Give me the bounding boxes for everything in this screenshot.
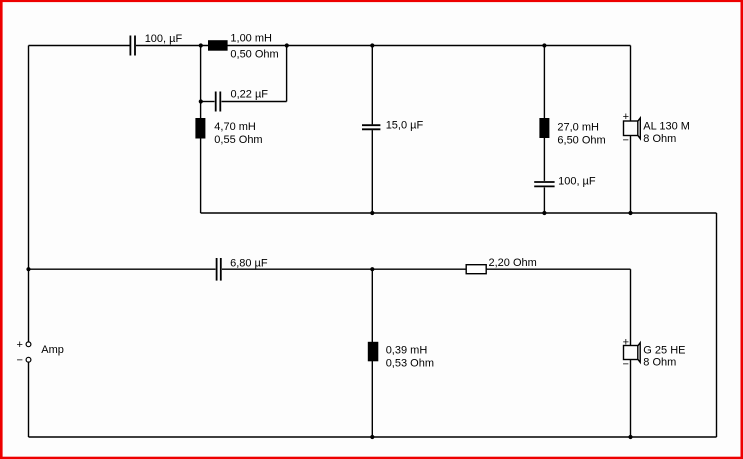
wire node A down to 0,22uF row (200, 46, 202, 102)
speaker G 25 HE (624, 343, 641, 363)
wire 0,39mH column (371, 269, 373, 437)
node B (287,45.5) (285, 43, 289, 47)
svg-text:8 Ohm: 8 Ohm (643, 133, 676, 145)
node A (201,45.5) (199, 43, 203, 47)
svg-text:0,53 Ohm: 0,53 Ohm (386, 357, 434, 369)
node F (372,213) (370, 211, 374, 215)
wire node E down through L2 to top bus (200, 102, 202, 214)
inductor L3 27,0mH (539, 118, 549, 138)
wire G25 column upper (630, 269, 632, 345)
svg-text:+: + (623, 336, 629, 348)
svg-text:27,0 mH: 27,0 mH (557, 122, 599, 134)
capacitor C1 100uF plates (130, 36, 135, 56)
wire 100uF column lower (543, 187, 545, 213)
svg-text:2,20 Ohm: 2,20 Ohm (489, 257, 537, 269)
svg-text:1,00 mH: 1,00 mH (230, 32, 272, 44)
node L (630,436.8) (628, 435, 632, 439)
wire amp minus down to bottom bus (28, 362, 30, 437)
wire 0,22uF row right segment (222, 101, 287, 103)
wire top bus (201, 212, 717, 214)
node J (372,268.8) (370, 267, 374, 271)
wire 0,22uF row left segment (201, 101, 215, 103)
inductor L2 4,70mH (195, 118, 205, 139)
resistor R1 2,20 Ohm (466, 265, 486, 274)
amp terminal + circle (26, 342, 31, 347)
svg-text:−: − (623, 135, 629, 147)
wire 15uF column upper (371, 46, 373, 125)
red selection frame (0, 0, 743, 2)
svg-text:+: + (623, 111, 629, 123)
svg-text:−: − (623, 359, 629, 371)
wire 15uF column lower (371, 130, 373, 213)
wire lower row left of C5 (29, 268, 216, 270)
svg-text:0,22 µF: 0,22 µF (231, 88, 269, 100)
node H (630,213) (628, 211, 632, 215)
wire AL130 column lower (630, 136, 632, 214)
svg-text:6,80 µF: 6,80 µF (230, 258, 268, 270)
svg-text:0,39 mH: 0,39 mH (386, 344, 428, 356)
svg-text:100, µF: 100, µF (558, 176, 596, 188)
node I (28.5,268.8) (26, 267, 30, 271)
svg-text:0,55 Ohm: 0,55 Ohm (214, 134, 262, 146)
node D (545,45.5) (542, 43, 546, 47)
capacitor C5 6,80uF plates (217, 258, 221, 281)
node G (545,213) (542, 211, 546, 215)
svg-text:−: − (17, 355, 23, 367)
inductor L1 1,00mH (208, 40, 228, 51)
svg-text:8 Ohm: 8 Ohm (643, 357, 676, 369)
speaker AL 130 M (624, 118, 641, 139)
wire left rail down to amp + (28, 46, 30, 343)
wire top horizontal right of C1 (136, 45, 631, 47)
svg-text:Amp: Amp (41, 344, 64, 356)
svg-text:+: + (17, 339, 23, 351)
svg-text:6,50 Ohm: 6,50 Ohm (557, 135, 605, 147)
wire right rail (716, 213, 718, 437)
svg-text:G 25 HE: G 25 HE (643, 345, 685, 357)
wire bottom bus (29, 436, 717, 438)
node K (372,436.8) (370, 435, 374, 439)
svg-text:0,50 Ohm: 0,50 Ohm (230, 48, 278, 60)
node C (372,45.5) (370, 43, 374, 47)
wire G25 column lower (630, 360, 632, 438)
svg-text:AL 130 M: AL 130 M (643, 120, 690, 132)
capacitor C4 100uF plates (534, 182, 554, 186)
wire AL130 column upper (630, 46, 632, 122)
inductor L4 0,39mH (368, 342, 379, 362)
svg-text:100, µF: 100, µF (145, 33, 183, 45)
wire 27mH column upper (543, 46, 545, 181)
node E (201,101.5) (199, 99, 203, 103)
wire top horizontal left segment (29, 45, 130, 47)
capacitor C2 0,22uF plates (216, 92, 221, 112)
svg-text:15,0 µF: 15,0 µF (386, 119, 424, 131)
wire right side of 0,22uF loop (286, 46, 288, 102)
amp terminal - circle (26, 357, 31, 362)
svg-text:4,70 mH: 4,70 mH (214, 121, 256, 133)
capacitor C3 15uF plates (362, 125, 380, 129)
wire lower row right of C5 (222, 268, 631, 270)
